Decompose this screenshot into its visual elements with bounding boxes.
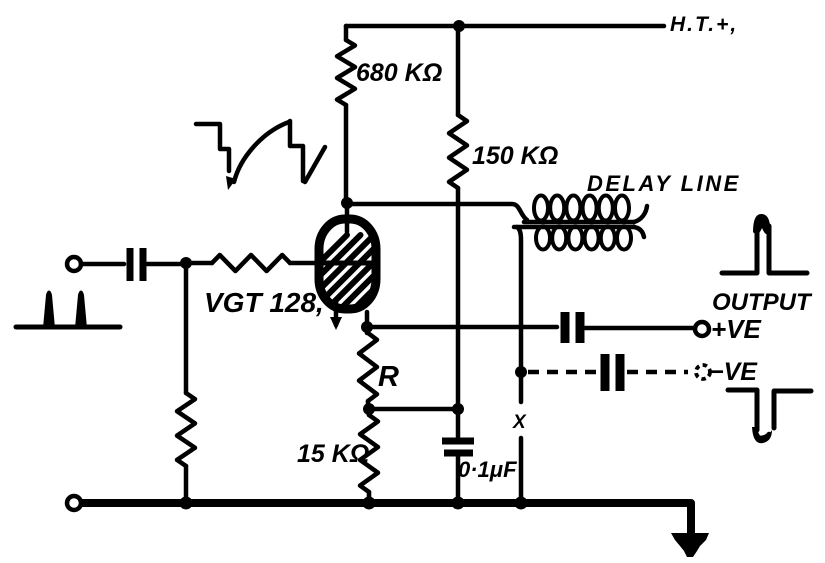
node -VE tap	[515, 366, 527, 378]
node bottom 15K	[363, 497, 376, 510]
node bottom 0.1uF	[452, 497, 465, 510]
tube top (anode) lead	[345, 203, 350, 232]
terminal +VE	[695, 322, 709, 336]
wire HT+ top rail	[346, 24, 664, 29]
wire input to coupling cap	[81, 262, 124, 267]
svg-text:R: R	[378, 361, 399, 393]
wire cap to grid node	[147, 262, 186, 267]
terminal input bottom	[67, 496, 81, 510]
tube envelope V1 VGT128	[252, 219, 455, 330]
waveform anode sawtooth	[196, 121, 325, 182]
svg-text:H.T.+,: H.T.+,	[670, 13, 738, 36]
wire cap to +VE terminal	[585, 326, 695, 331]
node bottom X-line	[515, 497, 528, 510]
node cap top junction	[452, 403, 464, 415]
node top-rail/150K junction	[453, 20, 465, 32]
svg-text:DELAY LINE: DELAY LINE	[587, 171, 741, 196]
tube cathode lead with arrow	[334, 300, 339, 325]
wire bottom rail	[81, 503, 691, 533]
waveform output negative pulse	[728, 390, 811, 430]
svg-text:680 KΩ: 680 KΩ	[356, 59, 442, 87]
svg-text:15 KΩ: 15 KΩ	[297, 440, 369, 468]
terminal -VE (dashed)	[696, 365, 710, 379]
wire dashed -VE line	[528, 370, 688, 375]
resistor R	[359, 327, 377, 409]
wire cathode to output cap	[367, 325, 557, 330]
svg-text:−VE: −VE	[709, 358, 758, 386]
resistor 680K	[337, 26, 355, 203]
resistor grid leak	[177, 263, 195, 502]
wire anode to delay line	[347, 204, 527, 220]
svg-text:VGT 128,: VGT 128,	[204, 287, 324, 318]
svg-text:150 KΩ: 150 KΩ	[472, 142, 558, 170]
node anode junction	[341, 197, 353, 209]
svg-text:+VE: +VE	[711, 314, 762, 344]
capacitor output +VE	[565, 312, 580, 343]
inductor delay line winding 1	[524, 196, 647, 223]
node R bottom junction	[363, 403, 375, 415]
wire R junction to cap node	[369, 407, 458, 412]
capacitor input coupling	[130, 248, 143, 281]
svg-text:OUTPUT: OUTPUT	[712, 289, 813, 316]
terminal input top	[67, 257, 81, 271]
resistor 150K	[449, 26, 467, 437]
inductor delay line winding 2	[514, 227, 644, 250]
waveform input pulses	[16, 325, 120, 330]
node bottom grid-leak	[180, 497, 193, 510]
resistor grid stopper	[186, 255, 316, 271]
waveform output positive pulse	[722, 224, 807, 273]
svg-text:X: X	[512, 412, 527, 433]
resistor 15K	[360, 409, 378, 502]
node cathode junction	[361, 321, 373, 333]
svg-text:0·1μF: 0·1μF	[458, 457, 517, 482]
capacitor 0.1uF	[442, 441, 474, 453]
node grid junction	[180, 257, 192, 269]
capacitor output -VE	[605, 354, 620, 391]
wire delay line tap to ground (X line)	[517, 227, 521, 502]
ground symbol	[671, 533, 709, 557]
